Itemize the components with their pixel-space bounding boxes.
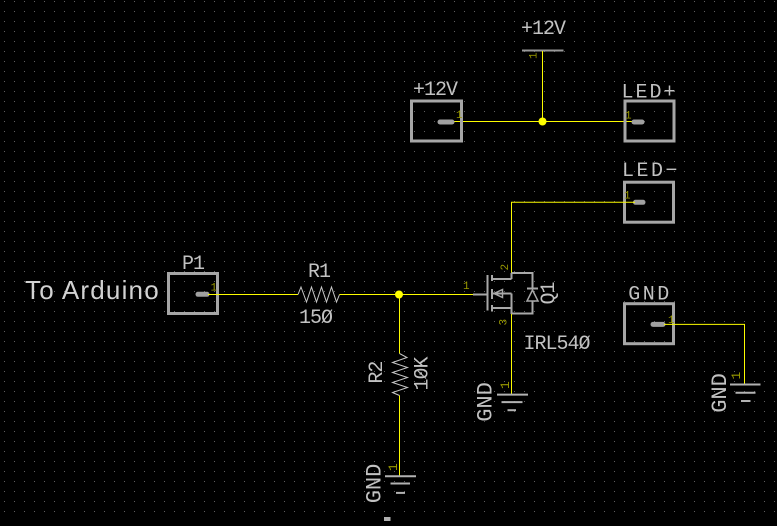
svg-text:1: 1 [211,283,218,295]
connector P1 [169,253,218,314]
svg-text:1: 1 [625,111,632,123]
ground GND below R2 [363,463,417,503]
svg-text:+12V: +12V [521,18,566,41]
resistor R2 [366,354,435,396]
wire P1 to R1 [208,294,298,296]
svg-text:+12V: +12V [413,79,458,102]
svg-text:R1: R1 [308,261,331,284]
junction +12V net [539,118,547,126]
junction gate net [395,291,403,299]
power symbol +12V supply [521,18,566,59]
connector +12V [412,79,464,141]
svg-text:To Arduino: To Arduino [25,275,160,305]
wire Q1 source to ground [511,314,513,395]
wire R1 to Q1 gate [340,294,474,296]
svg-text:LED+: LED+ [621,82,677,105]
ground GND right [708,372,761,413]
svg-text:15Ø: 15Ø [299,307,333,330]
svg-text:GND: GND [474,382,499,422]
ground GND below Q1 [474,381,529,422]
svg-text:2: 2 [500,264,512,271]
svg-text:1: 1 [456,110,463,122]
svg-text:1: 1 [624,191,631,203]
svg-text:Q1: Q1 [538,282,561,305]
svg-text:1: 1 [729,372,744,380]
svg-text:1: 1 [668,315,675,327]
resistor R1 [298,261,340,330]
connector LED+ [621,82,677,142]
wire R2 to ground [399,396,401,477]
wire junction to R2 [399,295,401,354]
svg-text:1: 1 [463,281,470,293]
connector LED- [622,160,680,222]
svg-text:P1: P1 [182,253,205,276]
wire GND connector to ground [664,324,745,384]
wire LED- connector to Q1 drain [512,202,636,273]
svg-text:GND: GND [628,284,672,307]
svg-text:GND: GND [363,464,388,504]
connector GND [625,284,676,344]
svg-text:1: 1 [386,463,401,471]
text fragment bottom edge [384,517,391,521]
wire +12V connector to LED+ connector [453,121,632,123]
svg-text:IRL54Ø: IRL54Ø [523,333,590,356]
svg-text:3: 3 [499,319,511,326]
svg-text:LED−: LED− [622,160,680,183]
transistor Q1 IRL540 [463,264,591,356]
wire +12V supply to junction [542,51,544,122]
svg-text:1: 1 [498,381,513,389]
svg-text:1: 1 [529,52,541,59]
svg-text:R2: R2 [366,362,389,384]
svg-text:10K: 10K [412,357,435,391]
